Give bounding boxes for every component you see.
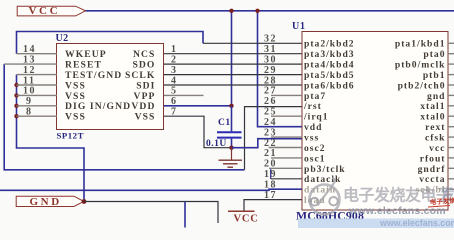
pin stub U2 VPP pin5 bbox=[164, 94, 204, 96]
svg-text:28: 28 bbox=[264, 75, 277, 86]
svg-text:gndrf: gndrf bbox=[418, 164, 446, 175]
svg-text:C1: C1 bbox=[218, 118, 231, 128]
svg-text:pta7: pta7 bbox=[304, 91, 326, 102]
svg-text:SDO: SDO bbox=[132, 60, 155, 71]
wire VCC drop to U1 vdd pin 24 bbox=[258, 11, 303, 127]
svg-text:U2: U2 bbox=[56, 33, 69, 44]
svg-text:26: 26 bbox=[264, 96, 277, 107]
svg-text:ptb0/mclk: ptb0/mclk bbox=[395, 60, 446, 71]
svg-text:21: 21 bbox=[264, 148, 277, 159]
svg-text:SDI: SDI bbox=[136, 80, 155, 91]
svg-text:2: 2 bbox=[171, 54, 178, 65]
svg-text:9: 9 bbox=[26, 96, 33, 107]
svg-text:SP12T: SP12T bbox=[57, 130, 84, 140]
wire VCC drop to C1/VDD node bbox=[231, 11, 233, 106]
svg-text:11: 11 bbox=[23, 75, 35, 86]
ground symbol under C1 bbox=[219, 148, 243, 168]
power symbol VCC (bottom, bar style) bbox=[228, 211, 259, 224]
wire short drop below GND rail bbox=[184, 202, 186, 228]
wire GND flag to the right and down bbox=[84, 202, 218, 224]
wire bottom rail into U1 data pin 18 bbox=[0, 189, 302, 190]
watermark elecfans bbox=[298, 178, 454, 228]
svg-text:ptb1: ptb1 bbox=[423, 70, 446, 81]
U2 pin stub 11 bbox=[17, 84, 58, 86]
svg-text:24: 24 bbox=[264, 117, 277, 128]
U1 left plain pin stubs bbox=[269, 95, 302, 168]
svg-text:vccta: vccta bbox=[419, 174, 445, 185]
svg-text:VSS: VSS bbox=[135, 112, 156, 123]
svg-text:23: 23 bbox=[264, 127, 277, 138]
svg-text:pta4/kbd4: pta4/kbd4 bbox=[304, 60, 355, 71]
svg-text:osc2: osc2 bbox=[304, 143, 326, 154]
svg-text:VCC: VCC bbox=[29, 5, 61, 17]
svg-text:17: 17 bbox=[264, 190, 277, 201]
U1 right pin stubs bbox=[448, 43, 454, 199]
wire U1 load pin17 to VCC power bar bbox=[244, 200, 302, 212]
junction U2 pin8 on chain bbox=[14, 114, 18, 118]
junction U2 pin9 on chain bbox=[14, 104, 18, 108]
U1 right pin labels bbox=[395, 39, 446, 196]
svg-text:7: 7 bbox=[171, 107, 178, 118]
svg-text:NCS: NCS bbox=[133, 49, 156, 60]
U2 pin stub 13 bbox=[4, 63, 57, 65]
wire U2 SCLK pin3 to U1 pin29 bbox=[164, 74, 303, 76]
svg-text:pta6/kbd6: pta6/kbd6 bbox=[304, 80, 355, 91]
U2 pin stub 10 bbox=[17, 94, 58, 96]
svg-text:6: 6 bbox=[171, 96, 178, 107]
svg-text:32: 32 bbox=[264, 34, 277, 45]
junction on VCC rail at x=257.5 bbox=[255, 9, 259, 13]
wire U2 NCS pin1 to U1 pin31 bbox=[164, 53, 303, 55]
svg-text:14: 14 bbox=[23, 44, 36, 55]
wire U2 VDD pin6 to VCC node bbox=[164, 105, 232, 107]
wire into dataclk pin 19 bbox=[271, 178, 302, 180]
svg-text:4: 4 bbox=[171, 75, 178, 86]
svg-text:29: 29 bbox=[264, 65, 277, 76]
svg-text:SCLK: SCLK bbox=[125, 70, 156, 81]
wire RESET net riser to /rst pin 26 bbox=[245, 107, 303, 170]
wire ground node jog to U1 vss pin 23 bbox=[232, 139, 303, 148]
IC U2 (SP12T) bbox=[56, 33, 164, 140]
svg-text:VCC: VCC bbox=[234, 214, 259, 225]
svg-text:U1: U1 bbox=[292, 21, 306, 32]
svg-text:VSS: VSS bbox=[65, 112, 86, 123]
svg-text:12: 12 bbox=[23, 65, 36, 76]
wire tclk/dataclk tie: U1 pin20 stub down to pin19 bbox=[270, 169, 272, 179]
svg-text:GND: GND bbox=[30, 196, 62, 208]
svg-text:19: 19 bbox=[264, 169, 277, 180]
U2 left pin labels bbox=[65, 49, 131, 123]
power flag VCC (top-left) bbox=[17, 5, 85, 17]
svg-text:5: 5 bbox=[171, 86, 178, 97]
U1 left pin numbers bbox=[264, 34, 277, 201]
svg-text:DIG IN/GND: DIG IN/GND bbox=[65, 101, 131, 112]
svg-text:vdd: vdd bbox=[304, 122, 322, 133]
U2 right pin labels bbox=[125, 49, 156, 123]
svg-text:25: 25 bbox=[264, 107, 277, 118]
svg-text:www.elecfans.com: www.elecfans.com bbox=[379, 218, 454, 228]
svg-text:0.1U: 0.1U bbox=[206, 139, 227, 149]
svg-text:pta5/kbd5: pta5/kbd5 bbox=[304, 70, 355, 81]
wire VCC top rail bbox=[86, 10, 454, 12]
wire U2 SDI pin4 to U1 pin28 bbox=[164, 84, 303, 86]
svg-text:30: 30 bbox=[264, 54, 277, 65]
U2 right pin numbers bbox=[171, 44, 178, 118]
svg-text:cfsk: cfsk bbox=[425, 133, 446, 144]
U2 pin stub 9 bbox=[17, 105, 58, 107]
wire WKEUP net into U1 pin 32 bbox=[203, 42, 302, 44]
svg-text:pta3/kbd3: pta3/kbd3 bbox=[304, 49, 355, 60]
svg-text:27: 27 bbox=[264, 86, 277, 97]
svg-text:/irq1: /irq1 bbox=[303, 112, 329, 123]
wire U2 VSS pin7 step down to ground node bbox=[164, 116, 232, 148]
capacitor C1 bbox=[217, 106, 242, 148]
svg-text:vcc: vcc bbox=[429, 143, 445, 154]
U2 left pin numbers bbox=[23, 44, 36, 118]
U2 pin stub 12 bbox=[17, 74, 58, 76]
svg-text:VDD: VDD bbox=[131, 101, 155, 112]
U2 pin stub 14 bbox=[17, 53, 58, 55]
junction at C1 bottom / ground node bbox=[229, 146, 233, 150]
svg-text:10: 10 bbox=[23, 86, 36, 97]
svg-text:WKEUP: WKEUP bbox=[65, 49, 107, 60]
svg-text:VSS: VSS bbox=[65, 91, 86, 102]
svg-text:TEST/GND: TEST/GND bbox=[65, 70, 122, 81]
svg-text:pta1/kbd1: pta1/kbd1 bbox=[395, 39, 446, 50]
svg-text:pb3/tclk: pb3/tclk bbox=[304, 164, 346, 175]
svg-text:RESET: RESET bbox=[65, 60, 102, 71]
svg-text:VPP: VPP bbox=[134, 91, 156, 102]
junction U2 pin11 on chain bbox=[14, 83, 18, 87]
wire RESET net: U2 pin13 down left edge, across bottom, up to /rst bbox=[4, 64, 244, 170]
svg-text:31: 31 bbox=[264, 44, 277, 55]
wire U2 SDO pin2 to U1 pin30 bbox=[164, 63, 303, 65]
junction U2 pin10 on chain bbox=[14, 93, 18, 97]
svg-text:3: 3 bbox=[171, 65, 178, 76]
svg-text:xtal0: xtal0 bbox=[420, 112, 445, 123]
svg-text:gnd: gnd bbox=[427, 91, 445, 102]
blue band bbox=[298, 219, 454, 229]
wire TEST/GND chain: U2 pin12 down to GND flag node bbox=[17, 75, 85, 202]
svg-text:xtal1: xtal1 bbox=[420, 101, 445, 112]
U1 left pin labels bbox=[303, 39, 355, 206]
junction on VCC rail at x=231.5 bbox=[229, 9, 233, 13]
U2 pin stub 8 bbox=[17, 115, 58, 117]
svg-text:rext: rext bbox=[425, 122, 445, 133]
svg-text:vss: vss bbox=[304, 133, 319, 144]
svg-text:20: 20 bbox=[264, 159, 277, 170]
svg-text:VSS: VSS bbox=[65, 80, 86, 91]
svg-text:1: 1 bbox=[171, 44, 178, 55]
power flag GND (bottom-left) bbox=[16, 196, 84, 208]
wire WKEUP net: U2 pin14 up and across to U1 pin32 bbox=[17, 32, 204, 54]
junction VDD/VCC node at C1 top bbox=[229, 104, 233, 108]
svg-text:18: 18 bbox=[264, 180, 277, 191]
svg-text:8: 8 bbox=[26, 107, 33, 118]
svg-text:osc1: osc1 bbox=[304, 153, 326, 164]
svg-text:ptb2/tch0: ptb2/tch0 bbox=[398, 80, 446, 91]
svg-text:rfout: rfout bbox=[420, 153, 446, 164]
IC U1 (MC68HC908) bbox=[292, 21, 448, 222]
svg-text:pta2/kbd2: pta2/kbd2 bbox=[304, 39, 355, 50]
junction at GND flag tip bbox=[82, 199, 87, 204]
svg-text:22: 22 bbox=[264, 138, 277, 149]
svg-text:13: 13 bbox=[23, 54, 36, 65]
svg-text:pta0: pta0 bbox=[423, 49, 445, 60]
svg-text:/rst: /rst bbox=[303, 101, 322, 112]
